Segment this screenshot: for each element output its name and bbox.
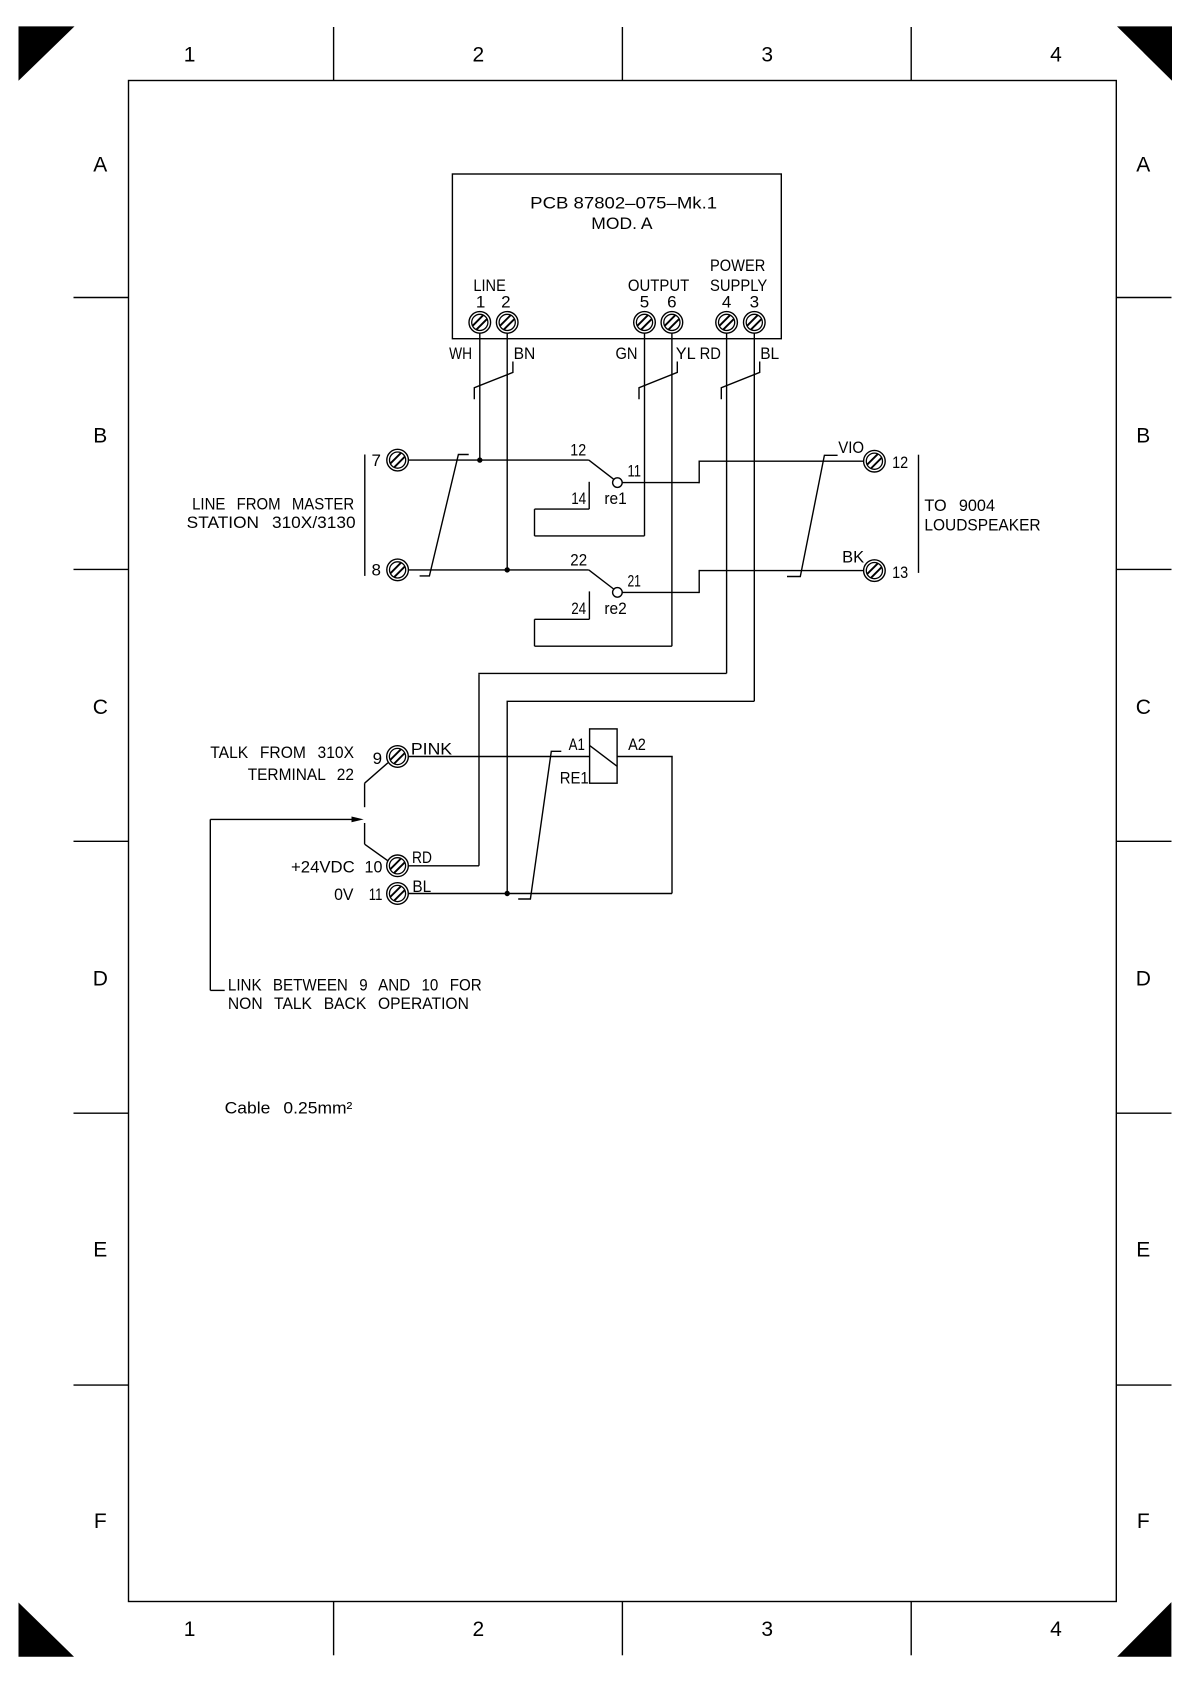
svg-text:3: 3	[750, 293, 759, 312]
svg-text:C: C	[1136, 696, 1151, 719]
svg-text:7: 7	[372, 451, 381, 470]
svg-text:2: 2	[501, 293, 510, 312]
svg-text:+24VDC: +24VDC	[291, 857, 355, 876]
svg-text:A1: A1	[569, 735, 585, 754]
svg-text:PCB 87802–075–Mk.1: PCB 87802–075–Mk.1	[530, 194, 717, 213]
svg-text:LOUDSPEAKER: LOUDSPEAKER	[924, 515, 1040, 534]
svg-text:2: 2	[473, 1618, 485, 1641]
svg-text:B: B	[93, 425, 107, 448]
svg-text:LINE FROM MASTER: LINE FROM MASTER	[192, 495, 354, 514]
svg-text:8: 8	[372, 561, 381, 580]
svg-text:BK: BK	[842, 548, 865, 567]
svg-text:B: B	[1136, 425, 1150, 448]
svg-text:3: 3	[761, 44, 773, 67]
svg-text:MOD. A: MOD. A	[591, 214, 653, 233]
svg-text:A2: A2	[628, 735, 646, 754]
svg-text:re2: re2	[604, 599, 626, 618]
svg-text:4: 4	[722, 293, 731, 312]
svg-text:RE1: RE1	[560, 769, 589, 788]
svg-text:4: 4	[1050, 1618, 1062, 1641]
svg-text:21: 21	[627, 572, 641, 591]
svg-text:1: 1	[184, 44, 196, 67]
svg-text:12: 12	[570, 440, 586, 459]
svg-text:TO 9004: TO 9004	[924, 496, 995, 515]
svg-text:BL: BL	[412, 877, 431, 896]
svg-text:E: E	[1136, 1239, 1150, 1262]
svg-text:D: D	[1136, 967, 1151, 990]
svg-text:10: 10	[365, 858, 383, 877]
svg-text:re1: re1	[604, 489, 626, 508]
svg-text:BL: BL	[760, 344, 779, 363]
svg-text:24: 24	[571, 599, 586, 618]
svg-text:VIO: VIO	[838, 438, 864, 457]
svg-text:TERMINAL 22: TERMINAL 22	[248, 765, 354, 784]
svg-text:YL: YL	[676, 344, 696, 363]
svg-text:LINK BETWEEN 9 AND 10 FOR: LINK BETWEEN 9 AND 10 FOR	[228, 975, 482, 994]
svg-text:F: F	[94, 1510, 107, 1533]
svg-text:2: 2	[473, 44, 485, 67]
svg-text:NON TALK BACK OPERATION: NON TALK BACK OPERATION	[228, 994, 469, 1013]
svg-text:9: 9	[373, 749, 382, 768]
svg-text:14: 14	[571, 489, 586, 508]
svg-text:A: A	[1136, 153, 1150, 176]
svg-text:OUTPUT: OUTPUT	[628, 276, 689, 295]
svg-text:3: 3	[761, 1618, 773, 1641]
svg-text:WH: WH	[449, 344, 472, 363]
svg-text:12: 12	[892, 453, 908, 472]
svg-text:TALK FROM 310X: TALK FROM 310X	[210, 743, 354, 762]
svg-text:GN: GN	[616, 344, 638, 363]
svg-text:POWER: POWER	[710, 256, 765, 275]
svg-text:BN: BN	[514, 344, 536, 363]
svg-text:RD: RD	[412, 848, 432, 867]
svg-text:E: E	[93, 1239, 107, 1262]
svg-text:D: D	[93, 967, 108, 990]
svg-text:13: 13	[892, 563, 908, 582]
svg-text:PINK: PINK	[411, 740, 453, 759]
svg-text:0V: 0V	[334, 885, 354, 904]
svg-text:11: 11	[369, 885, 383, 904]
svg-text:5: 5	[640, 293, 649, 312]
svg-text:4: 4	[1050, 44, 1062, 67]
svg-text:1: 1	[476, 293, 485, 312]
svg-text:F: F	[1137, 1510, 1150, 1533]
svg-text:A: A	[93, 153, 107, 176]
svg-text:Cable 0.25mm²: Cable 0.25mm²	[225, 1099, 353, 1118]
svg-text:22: 22	[570, 550, 587, 569]
svg-text:C: C	[93, 696, 108, 719]
svg-text:STATION 310X/3130: STATION 310X/3130	[187, 513, 356, 532]
svg-text:1: 1	[184, 1618, 196, 1641]
svg-text:11: 11	[627, 462, 641, 481]
svg-text:RD: RD	[700, 344, 721, 363]
svg-text:6: 6	[667, 293, 676, 312]
